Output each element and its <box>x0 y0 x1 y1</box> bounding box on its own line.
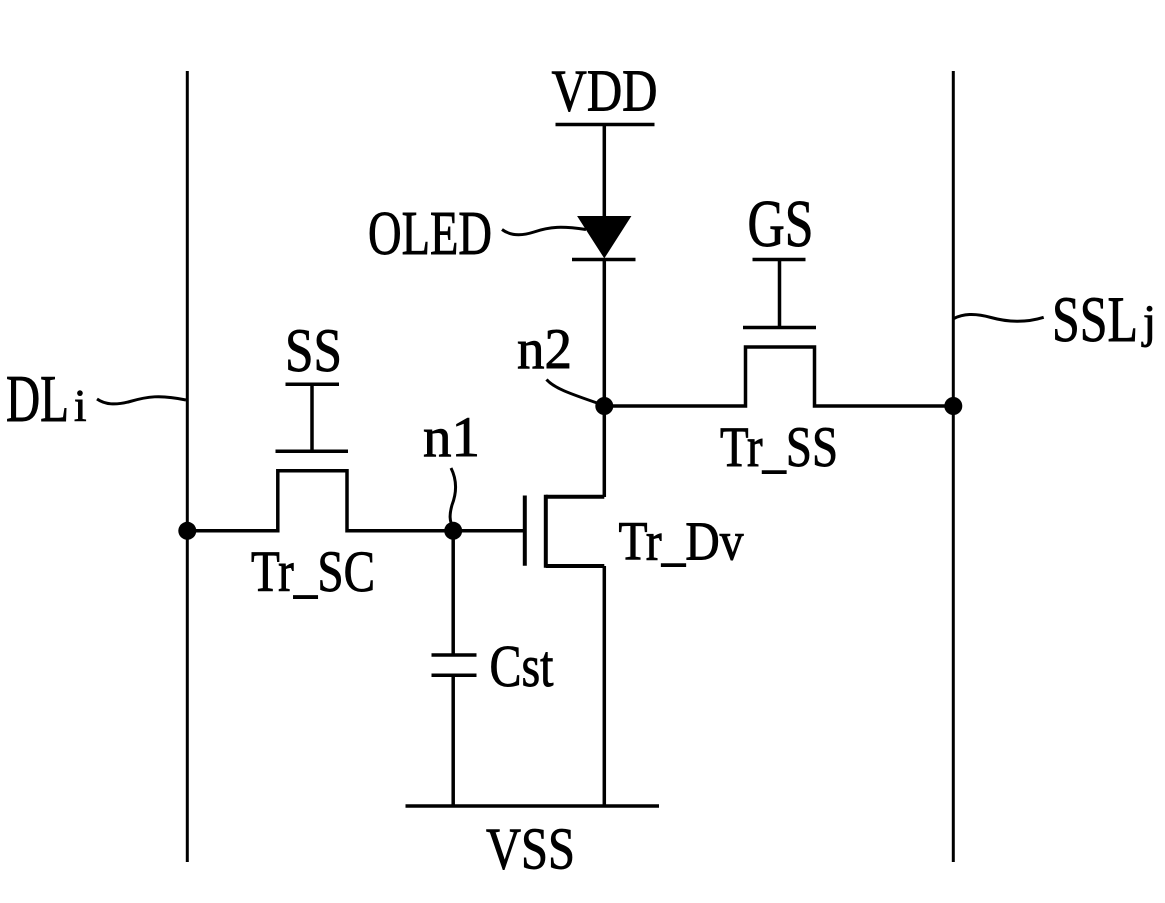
node junction dot on SSL rail <box>944 397 962 415</box>
wire Tr_Dv source (bottom) <box>546 564 605 568</box>
svg-text:SS: SS <box>285 318 342 385</box>
svg-text:DL: DL <box>6 362 69 436</box>
wire Tr_Dv drain (top) <box>546 495 605 499</box>
transistor Tr_Dv gate electrode bar <box>523 496 527 566</box>
svg-text:OLED: OLED <box>368 200 492 268</box>
wire Tr_Dv source down to VSS <box>603 566 607 806</box>
wire OLED cathode down through n2 to Tr_Dv drain <box>603 260 607 498</box>
wire n1 down to Cst top plate <box>451 531 455 655</box>
svg-text:SSL: SSL <box>1052 284 1138 356</box>
svg-text:Tr_SC: Tr_SC <box>251 539 375 604</box>
transistor Tr_SS gate electrode bar <box>743 326 816 330</box>
wire VDD stem to OLED anode <box>603 125 607 220</box>
svg-text:Tr_Dv: Tr_Dv <box>619 511 744 572</box>
wire Tr_SS gate stem <box>778 260 782 328</box>
svg-text:n2: n2 <box>517 318 572 381</box>
capacitor Cst top plate <box>432 653 477 657</box>
svg-text:Cst: Cst <box>490 633 554 699</box>
node SS terminal bar <box>286 383 340 387</box>
leader squiggle from SSL rail to SSL_j label <box>954 315 1044 322</box>
svg-text:VSS: VSS <box>486 816 575 882</box>
transistor Tr_SC gate electrode bar <box>276 450 349 454</box>
transistor Tr_SS channel wire with bump (n2 to SSL) <box>604 347 953 406</box>
capacitor Cst bottom plate <box>432 674 477 678</box>
node junction dot on DL rail <box>178 522 196 540</box>
svg-text:n1: n1 <box>423 406 480 469</box>
wire Cst bottom plate down to VSS <box>451 675 455 806</box>
wire data line DL (left vertical rail) <box>186 71 189 862</box>
leader squiggle from OLED label to diode <box>502 227 586 235</box>
transistor Tr_Dv channel bar <box>544 495 548 568</box>
leader squiggle from DL_i label to DL rail <box>97 397 186 404</box>
diode OLED cathode bar <box>572 258 636 262</box>
node n2 junction dot <box>595 397 613 415</box>
svg-text:Tr_SS: Tr_SS <box>720 416 838 479</box>
svg-text:j: j <box>1141 296 1156 348</box>
svg-text:GS: GS <box>748 187 814 261</box>
wire Tr_SC gate stem <box>310 384 314 451</box>
svg-text:i: i <box>74 381 87 431</box>
power VSS bar <box>406 804 660 808</box>
svg-text:VDD: VDD <box>552 58 658 124</box>
node GS terminal bar <box>753 258 806 262</box>
transistor Tr_SC channel wire with bump (DL to n1) <box>187 471 525 531</box>
diode OLED (filled triangle) <box>578 217 631 258</box>
leader curve from n1 label to junction <box>450 468 456 528</box>
power VDD terminal bar <box>556 123 655 127</box>
node n1 junction dot <box>444 522 462 540</box>
wire select line SSL (right vertical rail) <box>952 71 955 862</box>
leader curve from n2 label to junction <box>547 380 601 405</box>
